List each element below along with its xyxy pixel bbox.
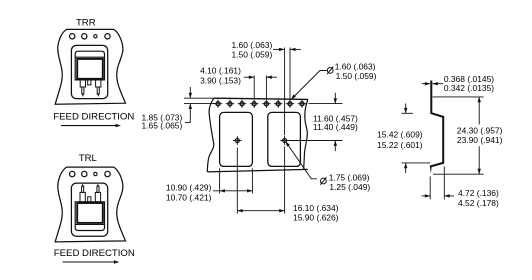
TRL lead right <box>95 192 100 201</box>
leader dia1.75 <box>286 142 317 179</box>
dim arrows 15.42 <box>405 103 407 113</box>
svg-text:11.40 (.449): 11.40 (.449) <box>313 122 358 132</box>
dim 10.90 extension lines <box>219 168 221 193</box>
pocket left <box>220 112 253 166</box>
dim line 24.30 <box>478 97 480 124</box>
svg-text:1.65 (.065): 1.65 (.065) <box>141 121 182 131</box>
TRR lead middle <box>88 80 91 85</box>
pocket pitch centreline <box>284 48 286 136</box>
TRR component inner body <box>77 59 103 79</box>
pocket right center hole <box>283 139 287 143</box>
TRL sprocket holes <box>70 171 75 176</box>
TRR tape segment outline <box>55 29 125 104</box>
TRR component tab line <box>75 56 104 58</box>
dim arrows 1.60 top <box>273 48 284 50</box>
tape left break edge <box>207 98 214 172</box>
TRR lead left <box>80 80 85 87</box>
svg-text:24.30 (.957): 24.30 (.957) <box>457 125 503 135</box>
svg-text:1.60 (.063): 1.60 (.063) <box>231 40 272 50</box>
TRL component body outer <box>75 202 104 231</box>
svg-text:1.50 (.059): 1.50 (.059) <box>336 71 377 81</box>
svg-text:15.90 (.626): 15.90 (.626) <box>293 212 339 222</box>
dim arrows 1.85 <box>189 87 191 98</box>
dim 11.60 extension lines <box>309 103 343 105</box>
dim 4.72 extension lines <box>429 176 431 199</box>
sprocket hole extension line <box>289 48 291 104</box>
TRL feed direction arrow <box>63 261 116 263</box>
dim 1.85 extension lines <box>184 97 214 99</box>
svg-text:15.42 (.609): 15.42 (.609) <box>377 129 423 139</box>
svg-text:0.342 (.0135): 0.342 (.0135) <box>444 83 494 93</box>
svg-text:TRL: TRL <box>79 153 98 164</box>
svg-text:3.90 (.153): 3.90 (.153) <box>200 75 241 85</box>
dim line 16.10 <box>237 210 284 212</box>
tape bottom edge <box>207 169 307 172</box>
dim 16.10 extension line <box>236 148 238 214</box>
dim arrows 4.72 <box>422 195 430 197</box>
tape sprocket holes row <box>216 102 220 106</box>
svg-text:16.10 (.634): 16.10 (.634) <box>293 203 339 213</box>
TRL tape segment outline <box>55 167 125 242</box>
TRR pocket <box>71 45 107 98</box>
svg-text:FEED DIRECTION: FEED DIRECTION <box>54 248 135 259</box>
svg-text:10.70 (.421): 10.70 (.421) <box>166 192 212 202</box>
pocket right <box>268 112 301 166</box>
dim arrows 4.10 <box>244 76 254 78</box>
dim 15.42 extension lines <box>402 112 414 114</box>
TRR feed direction arrow <box>61 125 117 127</box>
pocket left center hole <box>235 139 239 143</box>
svg-text:1.50 (.059): 1.50 (.059) <box>231 50 272 60</box>
svg-text:15.22 (.601): 15.22 (.601) <box>377 140 423 150</box>
dim 24.30 extension lines <box>433 96 484 98</box>
TRL component inner body <box>77 203 103 223</box>
svg-text:1.75 (.069): 1.75 (.069) <box>329 172 370 182</box>
TRL pocket <box>71 183 107 236</box>
TRR sprocket holes <box>70 34 75 39</box>
svg-text:1.25 (.049): 1.25 (.049) <box>329 182 370 192</box>
TRL lead middle <box>88 197 91 202</box>
dim line 10.90 <box>213 190 252 192</box>
svg-text:4.72 (.136): 4.72 (.136) <box>458 188 499 198</box>
side profile <box>431 81 444 167</box>
svg-text:23.90 (.941): 23.90 (.941) <box>457 135 503 145</box>
svg-text:TRR: TRR <box>76 18 96 29</box>
tape top edge <box>214 98 308 99</box>
dim arrows 0.368 <box>422 83 430 85</box>
dim 4.10 extension lines <box>253 75 255 98</box>
TRL lead left <box>80 192 85 201</box>
TRR lead right <box>96 80 101 87</box>
svg-text:4.52 (.178): 4.52 (.178) <box>458 198 499 208</box>
tape right break edge <box>304 99 308 169</box>
svg-text:4.10 (.161): 4.10 (.161) <box>200 65 241 75</box>
leader dia1.60 <box>292 71 327 100</box>
dim arrows 11.60 <box>334 93 336 104</box>
TRL component tab line <box>75 224 104 226</box>
dim text dia 1.75/1.25 <box>321 178 327 184</box>
svg-text:10.90 (.429): 10.90 (.429) <box>166 183 212 193</box>
svg-text:FEED DIRECTION: FEED DIRECTION <box>53 112 134 123</box>
dim text dia 1.60/1.50 <box>327 68 333 74</box>
TRR component body outer <box>75 51 104 80</box>
